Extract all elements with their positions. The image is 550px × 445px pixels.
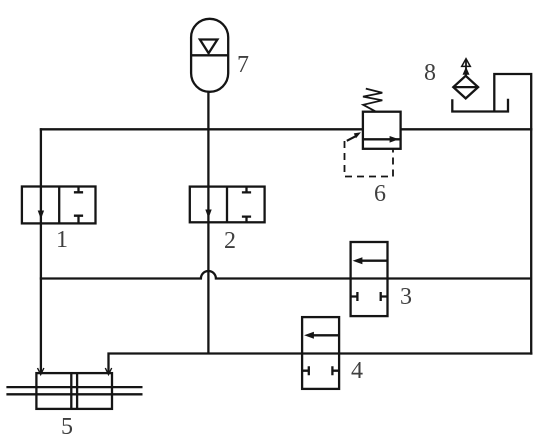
valve 1 blocked port T bottom (74, 216, 83, 224)
svg-text:1: 1 (56, 227, 68, 253)
valve 4 flow line with left arrow (304, 332, 339, 339)
valve 3 flow line with left arrow (353, 257, 388, 264)
valve 3 blocked port T left (351, 292, 358, 301)
valve 4 blocked port T left (302, 366, 309, 375)
filter 8 filled up arrow (463, 67, 470, 75)
accumulator 7 gas triangle (200, 40, 218, 54)
svg-text:2: 2 (224, 228, 236, 254)
wire: top pressure bus (right of valve 6 to right bus) (401, 128, 533, 130)
cylinder 5 piston (71, 373, 77, 409)
accumulator 7 capsule (191, 19, 228, 92)
valve 1 flow arrow (down) (38, 211, 44, 220)
valve 1 body (2-position 2-way) (22, 187, 96, 224)
wire: middle bus with hop over center branch (40, 271, 531, 279)
relief valve 6 spring (363, 89, 382, 112)
svg-text:5: 5 (61, 414, 73, 440)
tank 8 (open reservoir) (452, 99, 508, 112)
svg-text:4: 4 (351, 358, 363, 384)
valve 2 blocked port T top (242, 187, 251, 193)
valve 2 blocked port T bottom (242, 217, 251, 223)
cylinder 5 body (double-rod cylinder) (36, 373, 112, 409)
cylinder 5 left port arrowhead (38, 368, 44, 375)
relief valve 6 internal arrow (right) (390, 136, 399, 143)
svg-text:6: 6 (374, 181, 386, 207)
svg-text:7: 7 (237, 52, 249, 78)
relief valve 6 body (363, 112, 401, 149)
wire: bottom line from cylinder right port to right bus (109, 354, 533, 374)
wire: right bus vertical with top loop into tank (494, 74, 531, 355)
filter 8 top open triangle (462, 59, 471, 67)
relief valve 6 pilot dashed line (345, 141, 394, 177)
valve 1 blocked port T top (74, 187, 83, 193)
valve 2 flow arrow (down) (205, 210, 211, 219)
valve 4 blocked port T right (332, 366, 339, 375)
relief valve 6 pilot arrow diagonal (347, 132, 361, 141)
filter 8 diamond cross line (453, 86, 478, 88)
valve 4 body (vertical 2-position valve) (302, 317, 339, 389)
svg-text:3: 3 (400, 284, 412, 310)
wire: top pressure bus (left of valve 6) (40, 128, 363, 130)
filter 8 stem (465, 60, 467, 76)
filter 8 diamond (453, 76, 478, 99)
cylinder 5 rod lines (6, 387, 142, 394)
wire: left vertical branch (top bus through valve 1 to cylinder) (40, 128, 42, 373)
accumulator 7 gas/fluid separator line (191, 54, 228, 56)
wire: center vertical branch (accumulator through valve 2 to bottom line) (207, 92, 209, 354)
valve 2 body (2-position 2-way) (190, 187, 265, 223)
cylinder 5 right port arrowhead (105, 368, 111, 375)
valve 3 blocked port T right (381, 292, 388, 301)
svg-text:8: 8 (424, 60, 436, 86)
valve 3 body (vertical 2-position valve) (351, 242, 388, 316)
